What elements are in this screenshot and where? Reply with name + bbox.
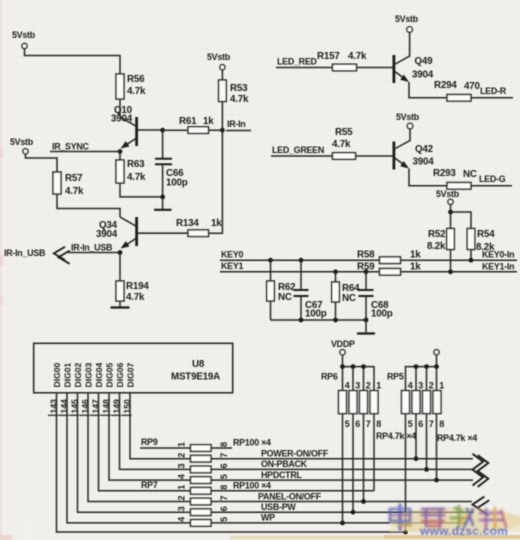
svg-text:3904: 3904: [111, 114, 133, 125]
RP5 top pin numbers 4 3 2 1: [408, 381, 445, 391]
svg-text:LED_GREEN: LED_GREEN: [272, 145, 324, 155]
resistor R64 NC: [332, 272, 360, 320]
svg-text:MST9E19A: MST9E19A: [171, 372, 220, 383]
watermark backdrop: [230, 507, 520, 538]
svg-text:5Vstb: 5Vstb: [10, 137, 34, 147]
transistor Q10 3904: [111, 105, 163, 149]
wire RP6 pin6 to USB-PW row: [352, 414, 354, 513]
off-page zigzag connector (POWER/ON-PBACK/HPDCTRL): [473, 454, 489, 487]
node R52/KEY1-In: [448, 269, 453, 274]
svg-text:7: 7: [429, 419, 434, 429]
svg-text:R55: R55: [335, 127, 353, 138]
svg-text:5Vstb: 5Vstb: [395, 14, 419, 24]
watermark glyph 4: [480, 508, 506, 528]
pin number 150: [122, 399, 132, 415]
wire row USB-PW: [211, 511, 474, 513]
svg-text:R63: R63: [127, 159, 145, 170]
RP5 resistor body pin4: [402, 391, 410, 414]
svg-text:3: 3: [418, 381, 423, 391]
svg-text:NC: NC: [463, 169, 477, 180]
svg-text:1k: 1k: [203, 116, 214, 127]
node RP5 pin1 top: [434, 364, 439, 369]
svg-text:IR_SYNC: IR_SYNC: [52, 142, 90, 152]
resistor pack RP9 label: [140, 437, 191, 448]
RP7 resistor 2: [191, 498, 212, 505]
RP6 resistor body pin3: [349, 391, 357, 414]
wire RP7 row1 to RP6 pin8: [211, 490, 374, 492]
resistor R294 470: [434, 80, 480, 101]
net label IR-In_USB (on wire): [68, 243, 120, 253]
resistor R59 1k: [357, 262, 421, 276]
wire RP5 pin5 to bottom rail: [405, 414, 407, 532]
RP5 top rail: [406, 367, 437, 391]
svg-text:R294: R294: [434, 80, 457, 91]
svg-text:5: 5: [345, 419, 350, 429]
capacitor C67 100p: [294, 260, 327, 320]
svg-text:3904: 3904: [96, 229, 118, 240]
pin number 148: [101, 399, 111, 415]
resistor R293 NC: [433, 168, 477, 189]
svg-text:6: 6: [355, 419, 360, 429]
node RP5 pin3 top: [414, 364, 419, 369]
wire pin144 to RP7 row4: [67, 393, 191, 523]
svg-text:DIG05: DIG05: [105, 362, 115, 387]
RP6 resistor body pin1: [370, 391, 378, 414]
RP9 resistor 2: [191, 455, 212, 462]
RP6 top pin numbers 4 3 2 1: [345, 381, 382, 391]
wire terminal to RP5 top rail: [436, 355, 438, 367]
power terminal 5Vstb (left, for R57): [10, 137, 34, 154]
svg-text:USB-PW: USB-PW: [261, 502, 296, 512]
resistor R57 4.7k: [53, 172, 84, 197]
svg-text:7: 7: [219, 495, 229, 500]
svg-text:4: 4: [177, 517, 187, 522]
svg-text:LED-R: LED-R: [480, 86, 507, 96]
svg-text:R56: R56: [127, 74, 145, 85]
net label LED_RED: [276, 57, 333, 68]
svg-text:HPDCTRL: HPDCTRL: [261, 470, 302, 480]
svg-text:4.7k: 4.7k: [65, 186, 84, 197]
wire RP6 pin8 down: [373, 414, 375, 491]
svg-text:R52: R52: [428, 229, 446, 240]
RP6 resistor body pin4: [339, 391, 347, 414]
resistor R55 4.7k: [332, 127, 356, 159]
pin number 147: [90, 399, 100, 415]
net label KEY0: [220, 250, 380, 261]
wire RP6 pin7 to PANEL row: [363, 414, 365, 502]
svg-text:R57: R57: [65, 173, 83, 184]
RP5 resistor body pin1: [433, 391, 441, 414]
RP7 resistor 3: [191, 509, 212, 516]
svg-text:1: 1: [376, 381, 381, 391]
svg-text:4: 4: [345, 381, 350, 391]
pin number 149: [111, 399, 121, 415]
RP5 bottom pin numbers 5 6 7 8: [408, 419, 445, 429]
power terminal 5Vstb (above R53): [207, 52, 231, 70]
svg-text:8: 8: [219, 442, 229, 447]
svg-text:R61: R61: [179, 116, 197, 127]
wire 5Vstb to R56: [25, 49, 121, 74]
wire RP6 pin5 to WP row: [342, 414, 344, 523]
svg-text:1k: 1k: [211, 218, 222, 229]
svg-text:DIG02: DIG02: [73, 362, 83, 387]
svg-text:1k: 1k: [410, 250, 421, 261]
wire pin146 to RP7 row2: [88, 393, 191, 502]
RP9 resistor 1: [191, 445, 212, 452]
svg-text:WP: WP: [261, 513, 275, 523]
wire R55 to Q42 base: [356, 155, 393, 157]
capacitor C66 100p: [155, 130, 188, 197]
wire 5Vstb to R57: [26, 154, 58, 172]
svg-text:5: 5: [219, 517, 229, 522]
svg-text:4: 4: [177, 474, 187, 479]
svg-text:6: 6: [219, 506, 229, 511]
node RP6 pin5 / WP: [340, 521, 345, 526]
svg-text:100p: 100p: [371, 309, 393, 320]
svg-text:ON-PBACK: ON-PBACK: [261, 459, 308, 469]
RP5 resistor body pin2: [423, 391, 431, 414]
svg-text:3904: 3904: [413, 157, 435, 168]
node KEY1/C68: [364, 269, 369, 274]
svg-text:3: 3: [355, 381, 360, 391]
svg-text:5Vstb: 5Vstb: [12, 30, 36, 40]
wire row PANEL-ON/OFF: [211, 501, 472, 503]
wire RP5 pin7 to ON-PBACK row: [426, 414, 428, 470]
wire row ON-PBACK: [211, 468, 473, 470]
wire IR-In node down to R134: [209, 130, 223, 233]
svg-text:100p: 100p: [305, 309, 327, 320]
svg-text:100p: 100p: [166, 178, 188, 189]
resistor R63 4.7k: [116, 152, 163, 197]
svg-text:RP100 ×4: RP100 ×4: [233, 437, 271, 447]
ground (key network): [357, 320, 375, 334]
node RP5 pin6 / POWER: [414, 456, 419, 461]
resistor R134 1k: [176, 218, 222, 237]
svg-text:8: 8: [376, 419, 381, 429]
pin number 144: [59, 399, 69, 415]
svg-text:LED-G: LED-G: [479, 174, 506, 184]
svg-text:Q42: Q42: [415, 144, 434, 155]
RP7 resistor 1: [191, 488, 212, 495]
watermark glyph 1: [390, 505, 411, 529]
power terminal (RP5): [434, 350, 439, 355]
node RP5 pin8 / HPDCTRL: [434, 478, 439, 483]
svg-text:NC: NC: [342, 293, 356, 304]
pin number 146: [80, 399, 90, 415]
svg-text:6: 6: [418, 419, 423, 429]
RP6 top rail: [343, 367, 375, 391]
node C68 bottom: [364, 318, 369, 323]
svg-text:5: 5: [219, 474, 229, 479]
RP7 resistor 4: [191, 520, 212, 527]
svg-text:4.7k: 4.7k: [348, 51, 367, 62]
wire Q42 emitter to R293: [409, 169, 447, 186]
svg-text:R134: R134: [176, 218, 199, 229]
off-page chevron connector (PANEL-ON/OFF): [473, 497, 490, 516]
svg-text:www.dzsc.com: www.dzsc.com: [419, 524, 508, 538]
resistor R54 8.2k: [467, 229, 495, 261]
svg-text:1: 1: [439, 381, 444, 391]
svg-text:KEY1-In: KEY1-In: [482, 262, 514, 272]
wire row HPDCTRL: [211, 479, 473, 481]
svg-text:IR-In_USB: IR-In_USB: [71, 243, 112, 253]
svg-text:R157: R157: [317, 51, 340, 62]
wire R61 to IR-In node: [209, 129, 223, 131]
svg-text:4.7k: 4.7k: [127, 86, 146, 97]
wire pin149 to RP9 row3: [120, 393, 191, 470]
svg-text:RP5: RP5: [387, 372, 404, 382]
RP9 resistor 3: [191, 466, 212, 473]
svg-text:5Vstb: 5Vstb: [207, 52, 231, 62]
IC U8 MST9E19A: [34, 343, 233, 393]
node KEY0/R62: [268, 258, 273, 263]
svg-text:1: 1: [177, 485, 187, 490]
node RP6 pin4 top: [340, 364, 345, 369]
pin number 145: [69, 399, 79, 415]
node RP6 pin6 / USB-PW: [351, 510, 356, 515]
RP9 resistor 4: [191, 477, 212, 484]
svg-text:DIG00: DIG00: [52, 362, 62, 387]
svg-text:6: 6: [219, 463, 229, 468]
svg-text:DIG04: DIG04: [94, 362, 104, 387]
svg-text:R58: R58: [357, 250, 375, 261]
svg-text:U8: U8: [192, 359, 205, 370]
svg-text:470: 470: [464, 81, 480, 92]
wire RP5 pin6 to POWER row: [415, 414, 417, 459]
svg-text:PANEL-ON/OFF: PANEL-ON/OFF: [258, 491, 322, 501]
resistor R53 4.7k: [219, 70, 249, 130]
node: Q10 emitter / IR_SYNC: [118, 149, 123, 154]
wire 5Vstb to R52/R54: [451, 204, 472, 228]
node RP5 pin2 top: [424, 364, 429, 369]
svg-text:RP4.7k ×4: RP4.7k ×4: [437, 433, 477, 443]
svg-text:1k: 1k: [410, 262, 421, 273]
svg-text:RP6: RP6: [321, 372, 338, 382]
wire R58 to KEY0-In: [401, 259, 518, 261]
svg-text:RP100 ×4: RP100 ×4: [233, 480, 271, 490]
svg-text:KEY0: KEY0: [221, 250, 243, 260]
transistor Q42 3904: [394, 129, 434, 170]
svg-text:VDDP: VDDP: [331, 339, 355, 349]
svg-text:5Vstb: 5Vstb: [396, 112, 420, 122]
svg-text:3: 3: [177, 506, 187, 511]
svg-text:IR-In_USB: IR-In_USB: [4, 248, 45, 258]
net label LED-G: [471, 174, 512, 186]
node RP5 pin5 / bottom rail: [403, 530, 408, 535]
RP6 bottom pin numbers 5 6 7 8: [345, 419, 382, 429]
ground (below R194): [111, 301, 130, 308]
wire base node to R61: [163, 129, 188, 131]
svg-text:RP7: RP7: [141, 480, 158, 490]
node R54/KEY0-In: [469, 258, 474, 263]
svg-text:2: 2: [366, 381, 371, 391]
node KEY1/R64: [333, 269, 338, 274]
svg-text:IR-In: IR-In: [227, 119, 245, 129]
wire R157 to Q49 base: [357, 67, 393, 69]
wire Q49 emitter to R294: [409, 82, 447, 98]
svg-text:KEY0-In: KEY0-In: [482, 250, 514, 260]
node RP6 pin7 / PANEL: [361, 499, 366, 504]
svg-text:7: 7: [219, 453, 229, 458]
ground (below C66): [154, 197, 172, 210]
node RP6 pin2 top: [361, 364, 366, 369]
wire pin143 to bottom rail: [57, 393, 406, 532]
scan artifacts: [0, 0, 12, 540]
RP9 row1 stub: [211, 447, 232, 449]
svg-text:KEY1: KEY1: [221, 261, 243, 271]
svg-text:POWER-ON/OFF: POWER-ON/OFF: [261, 449, 329, 459]
pin number 143: [48, 399, 58, 415]
wire pin147 to RP7 row1: [99, 393, 191, 491]
svg-text:RP9: RP9: [141, 437, 158, 447]
svg-text:NC: NC: [278, 292, 292, 303]
svg-text:2: 2: [429, 381, 434, 391]
wire bottom of key network: [271, 319, 367, 321]
resistor R56 4.7k: [116, 74, 146, 99]
power terminal VDDP: [331, 339, 355, 355]
svg-text:1: 1: [177, 442, 187, 447]
wire VDDP to RP6 top rail: [342, 355, 344, 367]
wire R56 to Q10 collector: [119, 99, 121, 117]
power terminal 5Vstb (keys): [436, 189, 460, 204]
node: R63/C66 ground junction: [160, 195, 165, 200]
node: Q34 emitter / IR-In_USB: [118, 250, 123, 255]
wire R57 to Q34 collector: [57, 194, 120, 217]
svg-text:8.2k: 8.2k: [427, 241, 446, 252]
svg-text:8: 8: [439, 419, 444, 429]
svg-text:3: 3: [177, 463, 187, 468]
svg-text:RP4.7k ×4: RP4.7k ×4: [376, 431, 416, 441]
svg-text:7: 7: [366, 419, 371, 429]
wire R59 to KEY1-In: [401, 271, 518, 273]
resistor R62 NC: [267, 260, 296, 320]
svg-text:4: 4: [408, 381, 413, 391]
svg-text:R53: R53: [230, 83, 248, 94]
wire pin145 to RP7 row3: [78, 393, 191, 512]
wire RP5 pin8 to HPDCTRL row: [436, 414, 438, 481]
svg-text:4.7k: 4.7k: [127, 172, 146, 183]
svg-text:LED_RED: LED_RED: [277, 57, 318, 67]
node IR-In: [220, 119, 251, 133]
svg-text:Q49: Q49: [415, 56, 434, 67]
svg-text:4.7k: 4.7k: [332, 139, 351, 150]
node 5Vstb key junction: [448, 210, 453, 215]
net label KEY1: [220, 261, 380, 272]
svg-text:4.7k: 4.7k: [230, 94, 249, 105]
svg-text:8: 8: [219, 485, 229, 490]
node R64 bottom: [333, 318, 338, 323]
node RP6 pin3 top: [351, 364, 356, 369]
power terminal 5Vstb (Q49): [395, 14, 419, 32]
resistor R194 4.7k: [116, 253, 149, 304]
transistor Q34 3904: [96, 217, 188, 249]
net label IR_SYNC: [50, 142, 120, 152]
off-page connector IR-In_USB: [4, 247, 70, 264]
svg-text:R194: R194: [126, 281, 149, 292]
wire pin150 to RP9 row2: [130, 393, 191, 459]
transistor Q49 3904: [394, 32, 434, 83]
svg-text:2: 2: [177, 453, 187, 458]
RP6 resistor body pin2: [360, 391, 368, 414]
svg-text:4.7k: 4.7k: [126, 292, 145, 303]
wire row POWER-ON/OFF: [211, 458, 473, 460]
node KEY0/C67: [299, 258, 304, 263]
svg-text:R54: R54: [477, 229, 495, 240]
svg-text:3904: 3904: [412, 70, 434, 81]
svg-text:DIG01: DIG01: [63, 362, 73, 387]
resistor R157 4.7k: [317, 51, 367, 71]
wire row WP: [211, 522, 467, 524]
net label LED_GREEN: [271, 145, 333, 156]
capacitor C68 100p: [359, 272, 393, 320]
svg-text:R293: R293: [433, 168, 456, 179]
svg-text:5: 5: [408, 419, 413, 429]
svg-text:5Vstb: 5Vstb: [436, 189, 460, 199]
node RP5 pin7 / ON-PBACK: [424, 467, 429, 472]
svg-text:DIG07: DIG07: [126, 362, 136, 387]
power terminal 5Vstb (top-left): [12, 30, 36, 49]
svg-text:2: 2: [177, 495, 187, 500]
svg-text:DIG06: DIG06: [115, 362, 125, 387]
RP5 resistor body pin3: [412, 391, 420, 414]
node C67 bottom: [299, 318, 304, 323]
node: Q10 base junction: [160, 128, 165, 133]
wire pin148 to RP9 row4: [109, 393, 191, 480]
resistor R61 1k: [179, 116, 214, 133]
resistor R52 8.2k: [427, 212, 454, 272]
net label LED-R: [471, 86, 513, 98]
power terminal 5Vstb (Q42): [396, 112, 420, 129]
watermark glyph 2: [422, 509, 444, 527]
svg-text:DIG03: DIG03: [84, 362, 94, 387]
watermark glyph 3: [451, 506, 473, 527]
resistor R58 1k: [357, 250, 421, 264]
